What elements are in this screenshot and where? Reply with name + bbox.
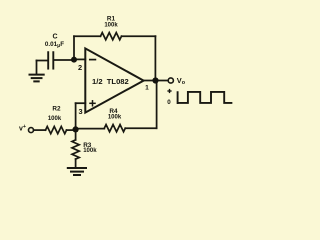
svg-text:2: 2: [78, 63, 82, 72]
svg-text:1/2: 1/2: [92, 77, 103, 86]
svg-text:C: C: [52, 33, 57, 40]
wire: capacitor to node A: [54, 59, 74, 61]
node B junction dot: [73, 126, 79, 132]
svg-text:3: 3: [78, 107, 82, 116]
ground (left): [30, 75, 44, 82]
wire: op-amp pin 3 stub: [76, 102, 86, 104]
wire: R2 to node B: [67, 129, 76, 131]
wire: feedback top right segment: [122, 35, 156, 37]
terminal Vo circle: [168, 78, 173, 83]
svg-text:0.01μF: 0.01μF: [45, 41, 64, 49]
resistor R1: [101, 33, 122, 40]
ground (bottom): [68, 168, 86, 175]
terminal v+ circle: [29, 128, 34, 133]
wire: ground riser: [36, 61, 38, 75]
svg-text:R2: R2: [52, 105, 61, 112]
node A junction dot: [71, 57, 77, 63]
svg-text:100k: 100k: [83, 148, 97, 154]
waveform square wave: [178, 92, 232, 103]
wire: feedback top left segment: [74, 35, 101, 37]
resistor R3: [72, 140, 79, 159]
svg-text:1: 1: [145, 85, 149, 92]
wire: node B to R4: [76, 128, 105, 130]
wire: R4 to right corner: [125, 127, 156, 129]
wire: op-amp output to node C: [144, 80, 156, 82]
svg-text:R1: R1: [107, 16, 116, 23]
wire: v+ to R2: [34, 129, 46, 131]
resistor R2: [46, 127, 67, 134]
wire: R3 to bottom ground: [75, 159, 77, 168]
svg-text:TL082: TL082: [107, 77, 129, 86]
wire: node A to op-amp pin 2: [74, 58, 85, 60]
wire: node A up to feedback line: [73, 36, 75, 59]
wire: node B down to R3: [75, 130, 77, 140]
wire: right vertical up to output node: [156, 81, 158, 129]
wire: feedback right vertical down to output node: [154, 36, 156, 80]
label + (waveform): [167, 89, 171, 93]
wire: left ground to capacitor: [37, 60, 48, 62]
resistor R4: [104, 125, 125, 132]
node C junction dot: [152, 77, 158, 83]
svg-text:0: 0: [167, 99, 171, 106]
svg-text:100k: 100k: [48, 116, 62, 122]
svg-text:100k: 100k: [108, 115, 122, 121]
wire: pin 3 down to node B: [75, 103, 77, 129]
op-amp inverting input minus sign: [90, 59, 96, 61]
capacitor C plates: [48, 52, 53, 68]
wire: node C to Vo terminal: [155, 80, 168, 82]
op-amp non-inverting plus sign: [90, 101, 95, 106]
svg-text:100k: 100k: [104, 23, 118, 29]
op-amp U1 triangle: [85, 48, 143, 112]
